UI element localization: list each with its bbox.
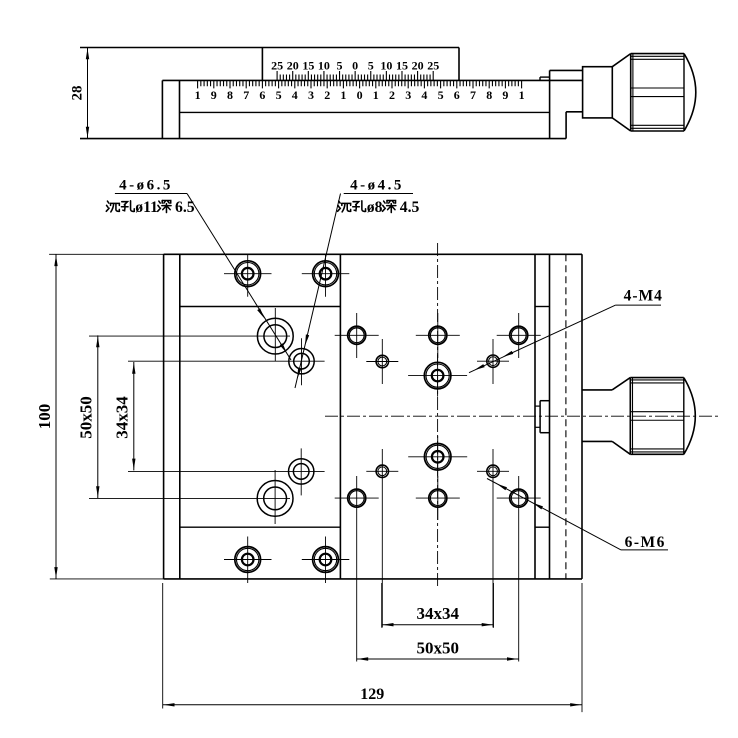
center screw lower xyxy=(424,444,451,471)
svg-text:100: 100 xyxy=(35,404,54,430)
svg-text:6: 6 xyxy=(454,88,460,102)
M6 hole upper-left xyxy=(348,326,366,344)
dimension 28 with arrows xyxy=(87,48,89,139)
svg-text:ø8: ø8 xyxy=(367,199,383,216)
dimension 129 xyxy=(162,583,164,709)
lower internal edge xyxy=(180,526,341,528)
tab on ruler right end xyxy=(539,77,541,80)
svg-text:25: 25 xyxy=(427,59,439,73)
leader line M4 xyxy=(469,305,616,373)
svg-text:4.5: 4.5 xyxy=(400,199,420,216)
label counterbore dia8 deep 4.5 xyxy=(338,201,351,212)
top view body top edge xyxy=(80,47,459,49)
svg-text:7: 7 xyxy=(243,88,249,102)
svg-text:9: 9 xyxy=(502,88,508,102)
ruler top line xyxy=(162,79,582,81)
svg-text:25: 25 xyxy=(271,59,283,73)
counterbore hole upper-left xyxy=(257,318,293,354)
vertical centerline xyxy=(437,243,439,589)
svg-text:5: 5 xyxy=(438,88,444,102)
M6 hole upper-mid xyxy=(429,326,447,344)
dimension 34x34 bottom xyxy=(381,583,383,628)
svg-text:20: 20 xyxy=(412,59,424,73)
svg-text:0: 0 xyxy=(352,59,358,73)
plan view left edge xyxy=(163,254,165,579)
lead screw nut tab xyxy=(539,401,541,433)
svg-text:28: 28 xyxy=(70,86,86,101)
M4 hole lower-left xyxy=(376,465,388,477)
slider bottom line xyxy=(180,111,550,113)
svg-text:10: 10 xyxy=(380,59,392,73)
svg-text:4: 4 xyxy=(292,88,298,102)
svg-text:2: 2 xyxy=(324,88,330,102)
micrometer knob (plan view) xyxy=(582,389,612,391)
svg-text:20: 20 xyxy=(287,59,299,73)
svg-text:3: 3 xyxy=(308,88,314,102)
right bracket line 2 xyxy=(549,254,551,579)
dimension 100 xyxy=(49,253,164,255)
right bracket line 1 xyxy=(534,254,536,579)
moving plate left edge xyxy=(339,254,341,579)
svg-text:3: 3 xyxy=(405,88,411,102)
svg-text:8: 8 xyxy=(486,88,492,102)
vernier scale ticks xyxy=(277,71,433,80)
svg-text:0: 0 xyxy=(357,88,363,102)
leader line dia6.5 xyxy=(187,194,291,361)
M6 hole lower-mid xyxy=(429,489,447,507)
counterbore hole lower-left xyxy=(257,481,293,517)
vernier plate left edge xyxy=(261,48,263,81)
dimension 34x34 left xyxy=(133,362,135,470)
plan view right edge xyxy=(581,254,583,579)
plan view bottom edge xyxy=(164,578,582,580)
micrometer bracket (side view) xyxy=(549,70,551,138)
slider left end cap xyxy=(161,80,163,138)
micrometer knob (side view) xyxy=(612,54,630,131)
svg-text:4-ø4.5: 4-ø4.5 xyxy=(350,178,404,194)
M6 hole lower-right xyxy=(510,489,528,507)
svg-text:1: 1 xyxy=(519,88,525,102)
cap screw hole bottom-right xyxy=(313,547,339,573)
svg-text:6-M6: 6-M6 xyxy=(625,534,666,551)
cap screw hole bottom-left xyxy=(235,547,261,573)
horizontal centerline xyxy=(325,415,718,417)
upper internal edge xyxy=(180,306,341,308)
svg-text:4-ø6.5: 4-ø6.5 xyxy=(119,178,173,194)
svg-text:1: 1 xyxy=(195,88,201,102)
svg-text:4-M4: 4-M4 xyxy=(624,288,663,305)
svg-text:7: 7 xyxy=(470,88,476,102)
svg-text:129: 129 xyxy=(360,686,384,703)
M4 hole upper-left xyxy=(376,355,388,367)
counterbore hole lower-offset xyxy=(289,459,314,484)
dimension 50x50 bottom xyxy=(356,658,518,660)
plan view top edge xyxy=(164,253,582,255)
vernier plate right edge xyxy=(458,48,460,81)
svg-text:5: 5 xyxy=(337,59,343,73)
svg-text:5: 5 xyxy=(368,59,374,73)
center screw upper xyxy=(424,362,451,389)
leader line M6 xyxy=(487,479,621,550)
label counterbore dia11 deep 6.5 xyxy=(106,201,119,212)
svg-text:6: 6 xyxy=(259,88,265,102)
top view body bottom edge xyxy=(80,138,566,140)
svg-text:50x50: 50x50 xyxy=(417,638,460,657)
cap screw hole top-left xyxy=(235,261,261,287)
svg-text:10: 10 xyxy=(318,59,330,73)
svg-text:8: 8 xyxy=(227,88,233,102)
micrometer sleeve (side view) xyxy=(583,67,613,118)
svg-text:1: 1 xyxy=(373,88,379,102)
svg-text:1: 1 xyxy=(340,88,346,102)
cap screw hole top-right xyxy=(313,261,339,287)
svg-text:4: 4 xyxy=(421,88,427,102)
svg-text:34x34: 34x34 xyxy=(417,604,460,623)
svg-text:5: 5 xyxy=(276,88,282,102)
svg-text:2: 2 xyxy=(389,88,395,102)
dimension 50x50 left xyxy=(97,335,99,498)
M4 hole upper-right xyxy=(487,355,499,367)
counterbore hole upper-offset xyxy=(289,349,314,374)
svg-text:34x34: 34x34 xyxy=(113,396,132,439)
svg-text:15: 15 xyxy=(302,59,314,73)
plan view left inner line xyxy=(179,254,181,579)
M6 hole lower-left xyxy=(348,489,366,507)
svg-text:9: 9 xyxy=(211,88,217,102)
svg-text:15: 15 xyxy=(396,59,408,73)
svg-text:ø11: ø11 xyxy=(135,199,158,216)
M4 hole lower-right xyxy=(487,465,499,477)
leader line dia4.5 xyxy=(295,194,341,389)
svg-text:50x50: 50x50 xyxy=(77,396,96,439)
hidden line (dashed) xyxy=(565,254,567,579)
main scale ticks xyxy=(198,80,522,88)
M6 hole upper-right xyxy=(510,326,528,344)
